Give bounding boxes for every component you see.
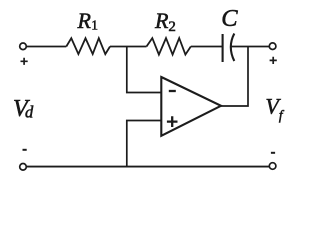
resistor R1 [66, 38, 110, 54]
wire R1 to R2 [110, 46, 147, 48]
op-amp minus input marker [169, 90, 176, 92]
wire top-left to R1 [26, 46, 66, 48]
capacitor C left plate [222, 34, 224, 62]
capacitor C right curved plate [231, 34, 235, 62]
plus sign right output polarity [270, 57, 277, 64]
wire from node between R1 and R2 down to op-amp inverting input [127, 47, 161, 93]
resistor R2 [147, 38, 191, 55]
terminal bottom-right [269, 163, 276, 170]
minus sign left bottom polarity [23, 149, 27, 151]
svg-text:C: C [221, 5, 238, 32]
svg-text:d: d [25, 103, 34, 122]
wire R2 to C [191, 46, 223, 48]
op-amp U1 triangle [161, 77, 221, 136]
wire C to output terminal [231, 46, 269, 48]
svg-text:R: R [77, 8, 92, 33]
wire op-amp output feedback up to node after C [221, 47, 248, 107]
terminal input top-left [20, 43, 27, 50]
terminal bottom-left [20, 164, 27, 171]
terminal output top-right [269, 43, 276, 50]
bottom rail wire [26, 166, 269, 168]
svg-text:R: R [154, 8, 169, 33]
svg-text:2: 2 [168, 19, 176, 35]
plus sign left input polarity [21, 58, 28, 65]
minus sign right bottom polarity [271, 152, 275, 154]
op-amp plus input marker [167, 116, 178, 127]
svg-text:1: 1 [91, 18, 98, 33]
wire non-inverting input to bottom rail [127, 121, 161, 167]
